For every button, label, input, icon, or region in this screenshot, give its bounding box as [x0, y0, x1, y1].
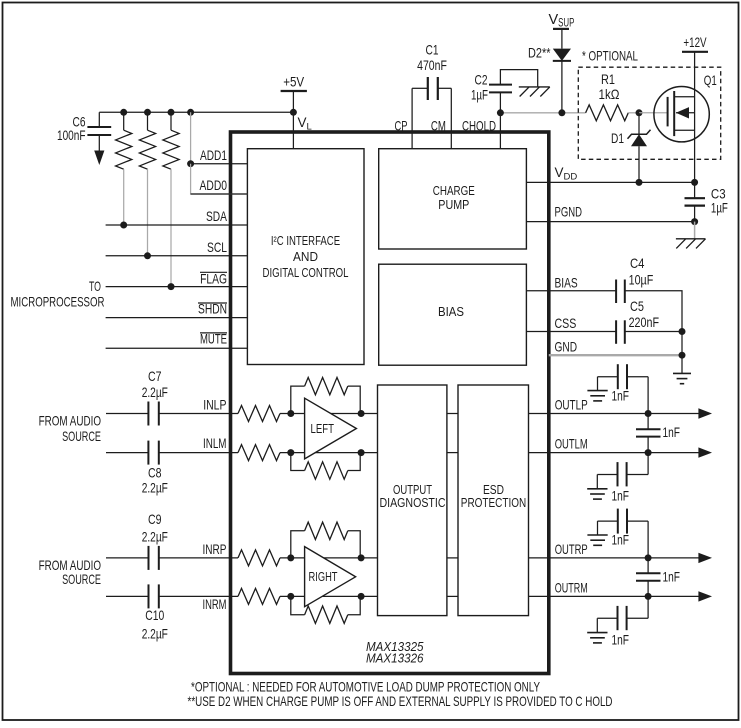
- wire ADD1: [191, 163, 248, 165]
- svg-text:OUTLP: OUTLP: [555, 397, 588, 413]
- wire OUTLM row: [529, 452, 700, 454]
- ground earth below GND: [681, 355, 683, 373]
- svg-text:BIAS: BIAS: [555, 274, 578, 290]
- svg-text:SDA: SDA: [206, 208, 227, 224]
- svg-text:C1: C1: [426, 42, 439, 58]
- capacitor C8: [147, 441, 149, 465]
- op-amp LEFT: [305, 398, 357, 459]
- capacitor 1nF series right: [647, 558, 649, 573]
- node RIGHT out+ junction: [358, 554, 365, 561]
- supply +12V: [682, 51, 708, 53]
- resistor INRM input: [238, 588, 280, 604]
- wire INLM to resistor: [159, 452, 238, 454]
- wire R1 to gate node: [628, 112, 639, 114]
- wire CSS row: [526, 331, 616, 333]
- svg-text:C8: C8: [148, 465, 162, 481]
- diode D2: [561, 29, 563, 48]
- wire GND row: [549, 354, 682, 356]
- node RIGHT out- junction: [358, 593, 365, 600]
- svg-text:1nF: 1nF: [612, 631, 630, 647]
- svg-text:OUTLM: OUTLM: [555, 436, 588, 452]
- capacitor C2: [499, 92, 501, 112]
- svg-text:SOURCE: SOURCE: [62, 428, 101, 444]
- wire CHOLD pin: [499, 113, 501, 149]
- block charge pump: [379, 149, 527, 249]
- capacitor 1nF shunt above OUTLP: [647, 377, 649, 414]
- node FLAG junction: [168, 283, 175, 290]
- wire INRP input: [106, 557, 149, 559]
- svg-text:+12V: +12V: [683, 34, 707, 50]
- wire INRM to amp: [280, 595, 378, 597]
- block I2C interface and digital control: [247, 149, 364, 365]
- node INRM amp junction: [287, 593, 294, 600]
- capacitor 1nF shunt below OUTLM: [647, 453, 649, 475]
- svg-text:1nF: 1nF: [612, 532, 630, 548]
- wire INRP to amp: [280, 557, 378, 559]
- svg-text:OUTRM: OUTRM: [555, 579, 588, 595]
- wire pull-up 1 tail: [123, 169, 125, 225]
- wire BIAS row: [526, 290, 616, 292]
- wire C5 to junction: [625, 331, 682, 333]
- node VL junction: [290, 109, 297, 116]
- resistor pull-up 2: [147, 112, 149, 130]
- node LEFT out- junction: [358, 449, 365, 456]
- wire SDA: [106, 224, 248, 226]
- resistor pull-up 3: [170, 112, 172, 130]
- svg-text:R1: R1: [601, 71, 615, 87]
- svg-text:10µF: 10µF: [629, 272, 654, 288]
- block output diagnostic: [378, 385, 447, 616]
- svg-text:INRM: INRM: [203, 596, 227, 612]
- svg-text:BIAS: BIAS: [438, 304, 464, 319]
- arrow OUTLP: [698, 408, 712, 418]
- node GND junction: [679, 352, 686, 359]
- svg-text:FROM AUDIO: FROM AUDIO: [39, 413, 101, 429]
- wire ADD1 drop from rail: [190, 112, 192, 163]
- wire C4 to corner: [625, 291, 682, 332]
- ground earth OUTRM: [587, 632, 607, 634]
- wire OUTLP inter-block: [447, 413, 458, 415]
- svg-text:PROTECTION: PROTECTION: [461, 495, 526, 510]
- svg-text:1nF: 1nF: [612, 488, 630, 504]
- resistor LEFT feedback top: [291, 386, 305, 413]
- node SCL junction: [144, 252, 151, 259]
- capacitor 1nF series left: [647, 414, 649, 430]
- resistor INLP input: [238, 406, 280, 422]
- node INLM amp junction: [287, 449, 294, 456]
- node CHOLD-D2 junction: [558, 109, 565, 116]
- resistor RIGHT feedback top: [291, 531, 305, 558]
- node CHOLD-C2 junction: [497, 109, 504, 116]
- wire CHOLD net: [500, 112, 585, 114]
- svg-text:MAX13326: MAX13326: [366, 652, 424, 666]
- wire INLP input: [106, 413, 148, 415]
- ground earth OUTLM: [587, 488, 607, 490]
- node OUTLP junction: [645, 410, 652, 417]
- wire pull-up 2 tail: [147, 169, 149, 256]
- node CSS junction: [679, 328, 686, 335]
- svg-text:CSS: CSS: [555, 315, 577, 331]
- ground earth OUTLP: [587, 390, 607, 392]
- svg-text:INLM: INLM: [203, 435, 227, 451]
- svg-text:INLP: INLP: [203, 397, 226, 413]
- capacitor C10: [148, 584, 150, 608]
- wire INLM input: [106, 452, 148, 454]
- wire +5V rail: [99, 111, 293, 113]
- diode D1 zener: [638, 113, 640, 135]
- capacitor C4: [615, 280, 617, 304]
- svg-text:DIAGNOSTIC: DIAGNOSTIC: [380, 495, 446, 510]
- wire INLM to amp: [280, 452, 378, 454]
- node OUTLM junction: [645, 449, 652, 456]
- wire FLAG: [106, 286, 248, 288]
- wire OUTLP row: [529, 413, 700, 415]
- node rail junction 2: [144, 109, 151, 116]
- svg-text:220nF: 220nF: [629, 314, 659, 330]
- wire OUTRP row: [529, 557, 700, 559]
- node LEFT out+ junction: [358, 410, 365, 417]
- svg-text:C7: C7: [148, 368, 162, 384]
- svg-text:GND: GND: [555, 338, 578, 354]
- capacitor C1: [412, 87, 428, 89]
- resistor INLM input: [238, 445, 280, 461]
- svg-text:MICROPROCESSOR: MICROPROCESSOR: [11, 293, 105, 309]
- svg-text:OUTRP: OUTRP: [555, 541, 588, 557]
- wire gate: [639, 112, 668, 114]
- svg-text:1nF: 1nF: [612, 387, 630, 403]
- arrow OUTRP: [698, 553, 712, 563]
- svg-text:2.2µF: 2.2µF: [142, 529, 168, 545]
- svg-text:INRP: INRP: [203, 541, 227, 557]
- wire CSS to GND junction: [681, 332, 683, 356]
- resistor INRP input: [238, 550, 280, 566]
- capacitor C3: [694, 182, 696, 198]
- svg-text:**USE D2 WHEN CHARGE PUMP IS O: **USE D2 WHEN CHARGE PUMP IS OFF AND EXT…: [188, 693, 613, 709]
- svg-text:C5: C5: [630, 298, 644, 314]
- svg-text:1kΩ: 1kΩ: [599, 86, 620, 102]
- node rail junction 4: [187, 109, 194, 116]
- wire INLP to resistor: [159, 413, 238, 415]
- resistor RIGHT feedback bottom: [291, 596, 305, 614]
- capacitor C5: [615, 320, 617, 344]
- svg-text:1µF: 1µF: [711, 200, 728, 216]
- svg-text:+5V: +5V: [283, 74, 305, 90]
- svg-text:C10: C10: [145, 607, 164, 623]
- svg-text:2.2µF: 2.2µF: [142, 625, 168, 641]
- svg-text:CP: CP: [395, 118, 408, 134]
- wire pull-up 3 tail: [170, 169, 172, 286]
- arrow down below C6: [94, 151, 104, 166]
- svg-text:C2: C2: [475, 71, 488, 87]
- wire INLP to amp: [280, 413, 378, 415]
- wire OUTRP inter-block: [447, 557, 458, 559]
- svg-text:CHOLD: CHOLD: [462, 118, 496, 134]
- svg-text:1nF: 1nF: [663, 424, 681, 440]
- svg-text:PUMP: PUMP: [438, 197, 469, 212]
- resistor pull-up 1: [123, 112, 125, 130]
- node SDA junction: [120, 222, 127, 229]
- svg-text:PGND: PGND: [555, 204, 583, 220]
- op-amp RIGHT: [305, 547, 356, 607]
- svg-text:AND: AND: [293, 249, 318, 264]
- svg-text:DIGITAL CONTROL: DIGITAL CONTROL: [263, 265, 349, 280]
- svg-text:RIGHT: RIGHT: [309, 569, 338, 584]
- capacitor 1nF shunt below OUTRM: [647, 596, 649, 618]
- svg-text:2.2µF: 2.2µF: [142, 384, 168, 400]
- capacitor C6: [98, 112, 100, 127]
- svg-text:ADD0: ADD0: [200, 177, 228, 193]
- svg-text:2.2µF: 2.2µF: [142, 479, 168, 495]
- svg-text:470nF: 470nF: [417, 57, 447, 73]
- svg-text:1µF: 1µF: [471, 86, 488, 102]
- node VDD-Q1 junction: [691, 179, 698, 186]
- wire INRM to resistor: [159, 595, 238, 597]
- node VDD-D1 junction: [636, 179, 643, 186]
- supply +5V: [281, 90, 307, 92]
- svg-text:CM: CM: [431, 118, 446, 134]
- wire CM pin: [450, 88, 452, 148]
- optional dashed box: [578, 67, 720, 159]
- svg-text:CHARGE: CHARGE: [433, 183, 475, 198]
- capacitor 1nF shunt above OUTRP: [647, 521, 649, 558]
- svg-text:SOURCE: SOURCE: [62, 571, 101, 587]
- svg-text:Q1: Q1: [704, 72, 717, 88]
- wire ADD0: [191, 164, 248, 194]
- transistor Q1: [654, 87, 709, 142]
- node rail junction 3: [168, 109, 175, 116]
- svg-text:SCL: SCL: [207, 239, 227, 255]
- svg-text:D2**: D2**: [528, 45, 551, 61]
- svg-text:C9: C9: [148, 511, 162, 527]
- node gate junction: [636, 109, 643, 116]
- ground chassis below PGND: [694, 222, 696, 239]
- IC MAX13325 outline: [231, 132, 549, 674]
- wire SHDN: [106, 317, 248, 319]
- svg-text:TO: TO: [89, 278, 101, 294]
- wire OUTRM inter-block: [447, 595, 458, 597]
- capacitor C7: [147, 402, 149, 426]
- svg-text:ADD1: ADD1: [200, 147, 227, 163]
- ground chassis near C2: [519, 86, 550, 88]
- node ADD1 junction: [187, 160, 194, 167]
- node PGND junction: [691, 218, 698, 225]
- wire OUTLM inter-block: [447, 452, 458, 454]
- wire Q1 drain-source vertical: [694, 52, 696, 183]
- node INRP amp junction: [287, 554, 294, 561]
- wire INRM input: [106, 595, 149, 597]
- svg-text:D1: D1: [611, 130, 624, 146]
- svg-text:C4: C4: [630, 255, 645, 271]
- block bias: [379, 264, 527, 365]
- svg-text:100nF: 100nF: [57, 127, 86, 143]
- node rail junction 1: [120, 109, 127, 116]
- svg-text:1nF: 1nF: [663, 569, 681, 585]
- node INLP amp junction: [287, 410, 294, 417]
- capacitor C9: [148, 546, 150, 570]
- wire CP pin: [411, 88, 413, 148]
- ground earth OUTRP: [587, 534, 607, 536]
- wire VDD row: [526, 181, 694, 183]
- node OUTRP junction: [645, 554, 652, 561]
- arrow OUTLM: [698, 447, 712, 457]
- svg-text:* OPTIONAL: * OPTIONAL: [582, 48, 638, 64]
- resistor R1: [586, 105, 629, 121]
- wire PGND row: [526, 221, 694, 223]
- wire SCL: [106, 255, 248, 257]
- svg-text:LEFT: LEFT: [311, 421, 335, 436]
- wire INRP to resistor: [159, 557, 238, 559]
- wire MUTE: [106, 347, 248, 349]
- svg-text:I²C INTERFACE: I²C INTERFACE: [271, 233, 340, 248]
- supply VSUP: [553, 28, 569, 30]
- wire VL from +5V to I2C block: [292, 91, 294, 149]
- resistor LEFT feedback bottom: [291, 453, 305, 471]
- arrow OUTRM: [698, 591, 712, 601]
- block ESD protection: [458, 385, 529, 616]
- wire OUTRM row: [529, 595, 700, 597]
- node OUTRM junction: [645, 593, 652, 600]
